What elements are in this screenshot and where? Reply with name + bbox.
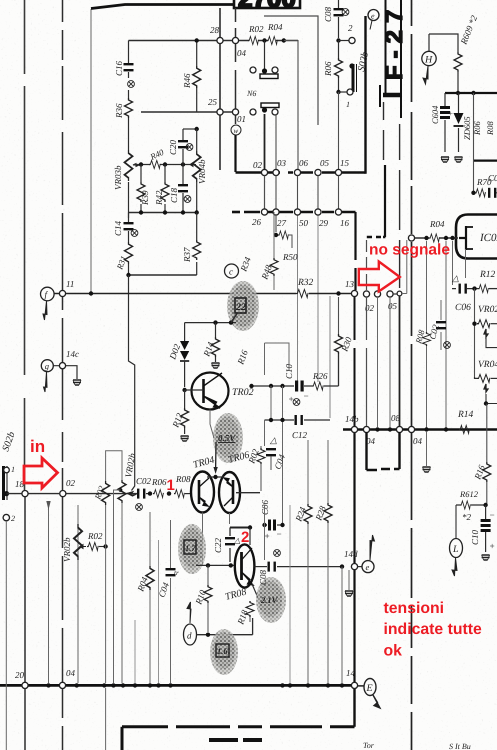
junction bus5 x135	[133, 683, 137, 687]
connector 2	[349, 37, 355, 43]
wire inner box y16	[264, 16, 318, 125]
junction bus y93	[471, 91, 475, 95]
circle c	[225, 264, 239, 278]
blob 2.1V	[256, 577, 286, 623]
wire x452.5 down	[452, 241, 454, 285]
wire y129 top of VR04b	[183, 128, 197, 130]
wire TR04-TR06 collectors top	[207, 476, 224, 478]
wire thin vertical x91	[90, 9, 92, 292]
svg-text:2700: 2700	[238, 0, 296, 13]
svg-text:△: △	[233, 536, 240, 545]
svg-text:*2: *2	[462, 512, 472, 522]
svg-text:L: L	[452, 544, 459, 555]
svg-text:1.6: 1.6	[217, 646, 228, 656]
wire bold dashed y237	[367, 236, 386, 238]
junction y275	[126, 273, 130, 277]
wire dash-dot vertical x62.5	[62, 0, 64, 291]
wire x265.5 from R02 junction down	[264, 41, 266, 69]
junction y322.6 a	[213, 320, 217, 324]
svg-text:29: 29	[319, 218, 329, 228]
wire 14d to e	[358, 566, 363, 568]
svg-text:R04: R04	[267, 22, 283, 32]
connector 04b	[363, 426, 369, 432]
svg-text:−: −	[489, 510, 495, 520]
svg-text:tr: tr	[174, 569, 179, 577]
circle w	[231, 125, 241, 135]
svg-text:R14: R14	[457, 410, 474, 420]
wire x282.5 column	[282, 386, 284, 523]
resistor R14a	[201, 323, 219, 362]
connector 20	[22, 682, 28, 688]
transistor TR02	[192, 373, 254, 410]
svg-text:△: △	[269, 435, 277, 445]
resistor R12	[478, 270, 497, 293]
svg-text:d: d	[187, 631, 192, 641]
junction bus5 x122	[121, 683, 125, 687]
resistor R46	[182, 41, 201, 113]
svg-text:C604: C604	[430, 105, 440, 124]
connector 29 on bus2	[315, 209, 321, 215]
capacitor C12	[292, 415, 308, 440]
switch contact S01b	[250, 103, 279, 115]
svg-text:R08: R08	[175, 474, 191, 484]
svg-text:R32: R32	[297, 278, 314, 288]
wire x318 bus1 to bus2	[317, 176, 319, 210]
svg-text:C05: C05	[488, 173, 497, 183]
wire y365.7 to 14c	[54, 366, 78, 379]
svg-text:03: 03	[277, 158, 287, 168]
junction y386 a	[249, 384, 253, 388]
resistor R28	[313, 440, 332, 683]
svg-text:−: −	[276, 529, 282, 539]
svg-text:VR04: VR04	[478, 360, 497, 370]
wire x330 column	[329, 296, 331, 418]
capacitor C08	[323, 0, 349, 38]
resistor R04c	[135, 566, 154, 594]
wire x105.6 column	[105, 452, 107, 750]
potentiometer VR02b	[62, 524, 86, 562]
wire main y292.7	[54, 293, 352, 295]
resistor R39	[137, 165, 150, 213]
wire x297.5 below bus2	[297, 215, 299, 381]
junction bus5 x342	[340, 683, 344, 687]
svg-text:R02: R02	[248, 24, 264, 34]
svg-text:+: +	[448, 109, 453, 118]
wire main vertical x354.5 lower	[353, 433, 355, 682]
svg-text:04: 04	[413, 436, 423, 446]
wire dash vertical x399.6	[399, 124, 401, 288]
junction y420 b	[280, 418, 284, 422]
svg-text:2.1V: 2.1V	[260, 595, 279, 605]
resistor R06	[323, 41, 343, 91]
resistor R02	[248, 24, 264, 45]
connector 11	[59, 290, 65, 296]
wire bottom bold segment y740	[209, 738, 262, 742]
wire y322.6	[185, 322, 236, 324]
svg-text:04: 04	[237, 48, 247, 58]
svg-text:11: 11	[66, 279, 74, 289]
junction collectors	[213, 475, 217, 479]
junction y420 a	[269, 418, 273, 422]
wire bottom input y493.6	[7, 493, 138, 495]
junction C08	[336, 38, 340, 42]
resistor R42	[154, 165, 169, 213]
svg-text:N6: N6	[246, 89, 256, 98]
junction bus5 x150	[148, 683, 152, 687]
wire TR08 emitter diagonal	[252, 584, 259, 600]
circle e2	[362, 535, 375, 573]
junction y164.5 a	[139, 162, 143, 166]
junction bus4 x390	[388, 427, 392, 431]
resistor R14 on bus4	[457, 410, 474, 434]
svg-text:C08: C08	[323, 6, 333, 22]
resistor R27 below bus2	[274, 215, 292, 248]
svg-text:2: 2	[241, 529, 249, 546]
junction y238 c	[450, 236, 454, 240]
blob 1.7V	[178, 524, 206, 574]
circle-x below TR04	[136, 504, 143, 511]
junction R06 bottom	[336, 90, 340, 94]
resistor R32	[296, 278, 314, 298]
wire x264.5 bus1 to bus2	[264, 176, 266, 210]
capacitor C06 series	[451, 273, 472, 313]
junction y322.6 b	[229, 320, 233, 324]
svg-text:2: 2	[348, 23, 353, 33]
ground 14c	[73, 380, 81, 385]
wire y238 into IC02	[412, 237, 459, 239]
wire x48.5 arrow line	[48, 505, 50, 683]
wire x290 column	[289, 505, 291, 683]
svg-text:△: △	[451, 273, 459, 283]
junction y288.6	[472, 286, 476, 290]
resistor R02d left	[92, 481, 109, 505]
ground under C10b	[482, 555, 490, 560]
wire x264.5 col	[264, 505, 266, 560]
svg-text:−: −	[303, 391, 309, 401]
wire bus2 left dash stub	[232, 211, 240, 214]
wire y164.5 row	[134, 164, 190, 166]
connector 02c	[60, 491, 66, 497]
svg-text:C14: C14	[113, 220, 123, 236]
potentiometer VR04b	[193, 129, 207, 212]
svg-text:25: 25	[208, 97, 218, 107]
svg-text:g: g	[45, 361, 49, 371]
ground under ZD605	[455, 157, 463, 162]
connector 14	[351, 682, 357, 688]
svg-text:TR02: TR02	[232, 387, 254, 398]
junction y238 b	[444, 236, 448, 240]
wire x338.5 down to bus1	[338, 92, 340, 170]
circle g	[41, 360, 53, 392]
junction bus5 x282	[280, 683, 284, 687]
svg-text:C22: C22	[213, 537, 223, 553]
svg-text:VR04b: VR04b	[197, 159, 207, 184]
svg-text:C20: C20	[168, 139, 178, 155]
svg-text:05: 05	[320, 158, 330, 168]
connector 06 on bus1	[294, 169, 300, 175]
connector 28b	[232, 37, 238, 43]
junction bus5 x308	[306, 683, 310, 687]
svg-text:R50: R50	[282, 252, 298, 262]
svg-text:R06: R06	[323, 61, 333, 77]
junction bus3 d	[195, 210, 199, 214]
wire TR04 bottom down	[202, 513, 204, 567]
circle E	[364, 679, 380, 709]
junction R02c	[103, 544, 107, 548]
svg-text:VR03b: VR03b	[113, 165, 123, 190]
svg-text:VR02b: VR02b	[62, 537, 72, 562]
wire bus1 right turn up x365.5	[364, 16, 366, 174]
wire x399.5 bold down	[399, 296, 401, 466]
wire x135 column	[134, 620, 136, 683]
svg-text:ZD605: ZD605	[462, 116, 472, 140]
junction bus4 x426.5	[424, 427, 428, 431]
wire y288.6 right	[472, 288, 478, 290]
svg-text:1: 1	[346, 100, 350, 109]
wire TR06 emitter out	[236, 492, 260, 494]
wire left vertical x25 lower	[24, 496, 26, 750]
svg-text:w: w	[234, 127, 239, 135]
svg-text:C10: C10	[470, 529, 480, 545]
ground under C604	[441, 157, 449, 162]
junction top of R46	[195, 38, 199, 42]
staircase wire left of C10	[265, 343, 290, 375]
resistor R16	[472, 462, 491, 504]
wire x318 below bus2	[317, 215, 319, 382]
svg-text:C08: C08	[258, 569, 268, 585]
resistor R18	[235, 601, 254, 627]
capacitor C18	[169, 165, 191, 213]
connector 18	[22, 491, 28, 497]
junction x48.5 bus5	[46, 683, 50, 687]
svg-text:14c: 14c	[66, 349, 79, 359]
svg-text:C12: C12	[292, 430, 308, 440]
op-amp IC02 envelope	[456, 215, 497, 259]
wire x486.8 down to R16	[486, 404, 488, 463]
wire main vertical x354.5 middle	[354, 296, 356, 426]
connector 13	[351, 290, 357, 296]
wire bus4 y429.5 bold	[343, 428, 497, 430]
capacitor C16	[114, 41, 134, 88]
svg-text:H: H	[424, 55, 433, 66]
junction bus3 b	[163, 210, 167, 214]
connector 27 on bus2	[273, 209, 279, 215]
svg-text:Tor: Tor	[363, 741, 375, 750]
svg-text:R08: R08	[485, 121, 495, 136]
svg-text:14: 14	[346, 668, 356, 678]
junction bus5 x290	[288, 683, 292, 687]
junction x338.5 main	[336, 291, 340, 295]
wire x390 down	[389, 297, 391, 427]
svg-text:S It Bu: S It Bu	[449, 742, 471, 750]
junction bus3 a	[139, 210, 143, 214]
connector 02b	[363, 291, 369, 297]
svg-text:e: e	[366, 562, 370, 572]
svg-text:20: 20	[15, 670, 25, 680]
connector 25a	[217, 109, 223, 115]
capacitor C02	[136, 476, 152, 499]
blob 22V	[227, 281, 259, 331]
resistor R40	[148, 147, 166, 169]
wire x62.5 lower	[62, 497, 64, 750]
wire x271 column	[270, 386, 272, 418]
connector 16 on bus2	[335, 209, 341, 215]
switch contact S01a	[250, 67, 278, 79]
resistor R24	[293, 440, 312, 683]
svg-text:1.7: 1.7	[185, 543, 196, 553]
wire x62.5 between nodes	[62, 297, 64, 490]
svg-text:1: 1	[11, 465, 15, 474]
annotation arrow in	[24, 458, 58, 488]
wire y92 stub	[339, 91, 349, 93]
svg-text:R612: R612	[459, 489, 479, 499]
svg-text:15: 15	[340, 158, 350, 168]
wire TR06 bottom down	[229, 513, 231, 524]
circle f	[41, 287, 55, 320]
svg-text:c: c	[229, 267, 233, 277]
wire corner x354.5 up from y726.8	[353, 688, 355, 727]
wire stub to x399.5	[393, 293, 397, 295]
capacitor C22	[213, 528, 240, 563]
connector 05c	[387, 291, 393, 297]
wire loop to IC input	[402, 240, 407, 294]
potentiometer VR04	[475, 360, 497, 406]
junction y164.5 b	[163, 162, 167, 166]
potentiometer VR02b right	[114, 452, 138, 683]
wire x338.5 bus1 to bus2	[338, 176, 340, 210]
resistor R36	[114, 90, 133, 148]
junction y164.5 c	[181, 162, 185, 166]
wire y275	[129, 274, 197, 276]
wire left dash-dot vertical x24.5	[24, 0, 26, 491]
svg-text:IC02: IC02	[479, 232, 497, 244]
svg-text:F-27: F-27	[381, 3, 408, 80]
wire x474.5 down	[474, 289, 476, 377]
resistor R70 row	[471, 173, 497, 198]
wire x426.5 down	[426, 241, 428, 428]
ground under R12a	[181, 436, 189, 441]
svg-text:R26: R26	[312, 371, 328, 381]
svg-text:04: 04	[66, 668, 76, 678]
wire x297.5 bus1 to bus2	[297, 176, 299, 210]
connector 05 on bus1	[315, 169, 321, 175]
svg-text:R46: R46	[182, 73, 192, 89]
svg-text:C02: C02	[136, 476, 152, 486]
resistor R02b	[246, 446, 265, 491]
wire x170.5 column	[170, 520, 172, 683]
junction y565.4 a	[206, 563, 210, 567]
wire y40.5 horizontal 28-line	[129, 40, 299, 42]
diode ZD605	[454, 93, 473, 152]
svg-text:ok: ok	[384, 643, 403, 660]
wire bus2 y212 dashed bold	[244, 211, 356, 214]
wire top of TR08	[230, 527, 251, 529]
wire x446 down	[445, 241, 447, 428]
svg-text:R12: R12	[479, 270, 496, 280]
junction bus5 x105.6	[102, 683, 106, 687]
resistor R612	[456, 489, 484, 522]
svg-text:13: 13	[345, 279, 355, 289]
resistor R48	[259, 212, 278, 290]
wire x264.5 bold to bus1	[264, 114, 266, 170]
junction bus3 c	[181, 210, 185, 214]
svg-text:22: 22	[235, 302, 246, 313]
wire d row y634.7	[197, 618, 253, 635]
junction x91	[89, 291, 93, 295]
wire bus1 y172.5 dashed bold	[236, 171, 366, 174]
connector 28a	[217, 37, 223, 43]
resistor R08b	[413, 328, 430, 346]
wire x276 bus1 to bus2	[275, 176, 277, 210]
wire H to R609	[429, 34, 458, 52]
annotation arrow no segnale	[359, 262, 400, 292]
wire loop y450	[106, 451, 122, 480]
connector 14b	[351, 426, 357, 432]
junction bus5 x170	[168, 683, 172, 687]
junction TR02 base	[182, 388, 186, 392]
capacitor C06b electrolytic row	[260, 499, 285, 541]
svg-text:R39: R39	[140, 190, 150, 206]
svg-text:R04: R04	[429, 219, 445, 229]
resistor R26	[312, 371, 328, 390]
svg-text:R06: R06	[151, 477, 167, 487]
circle L	[450, 505, 463, 576]
wire dash vertical x235.5	[235, 8, 237, 124]
wire x465.5 under IC	[465, 249, 467, 278]
wire x276 to bus1	[275, 114, 277, 170]
svg-text:02: 02	[66, 478, 76, 488]
arrow into VR04b	[190, 163, 196, 167]
svg-text:08: 08	[391, 413, 401, 423]
wire bus5 stub to E	[358, 685, 365, 687]
svg-text:05: 05	[388, 301, 398, 311]
junction bus4 x446	[444, 427, 448, 431]
junction y493.6 a	[148, 491, 152, 495]
resistor R04b	[429, 219, 445, 242]
junction d row a	[206, 633, 210, 637]
svg-text:1: 1	[167, 477, 175, 494]
wire right bold y160.6	[474, 160, 497, 162]
connector 04c on bus4	[408, 426, 414, 432]
circle e top	[368, 10, 379, 30]
wire top-right bold y93	[445, 92, 497, 94]
wire collector pointer arrow	[215, 442, 217, 470]
resistor R02c	[87, 531, 104, 551]
circle H	[422, 51, 436, 84]
svg-text:27: 27	[277, 218, 287, 228]
wire TR02 collector down	[210, 410, 214, 439]
junction bus5 x328	[326, 683, 330, 687]
junction R02-R04	[262, 38, 266, 42]
connector 13b	[408, 235, 414, 241]
wire bottom dashed bold y726.8	[122, 725, 355, 728]
svg-text:R42: R42	[154, 190, 164, 206]
capacitor C14	[113, 213, 138, 239]
wire bold vertical x385	[384, 165, 386, 237]
capacitor C20	[168, 129, 193, 165]
junction x78 bus5	[75, 683, 79, 687]
wire bus3 y212.5	[128, 212, 198, 214]
svg-text:R37: R37	[182, 247, 192, 263]
wire top bold line y4	[91, 5, 234, 9]
wire boundary x411.5 lower	[411, 432, 413, 750]
wire dash vertical x383.5	[383, 102, 385, 160]
switch S02b input	[0, 430, 17, 500]
junction R609 bus	[456, 91, 460, 95]
capacitor C604	[430, 93, 453, 152]
svg-text:50: 50	[299, 218, 309, 228]
svg-text:e: e	[371, 12, 375, 21]
